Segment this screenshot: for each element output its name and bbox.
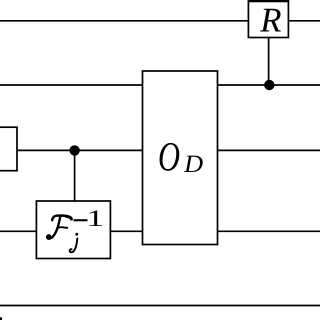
- wire q3: [0, 230, 320, 232]
- label j subscript: [70, 233, 79, 253]
- control wire q2 to F: [74, 150, 76, 202]
- label minus of superscript: [74, 219, 88, 221]
- gate R box top edge (clipped at image top): [248, 0, 290, 2]
- control dot on q2: [69, 145, 79, 155]
- wire q2: [0, 149, 320, 151]
- svg-text:1: 1: [86, 206, 104, 232]
- label mathcal F: [47, 216, 71, 239]
- svg-text:O: O: [158, 135, 180, 181]
- gate F_j^-1 box: [36, 201, 110, 259]
- control dot on q1: [264, 80, 274, 90]
- crop artifact bottom-left: [0, 317, 2, 320]
- gate O_D box: [143, 71, 218, 245]
- svg-text:D: D: [183, 151, 203, 178]
- wire q0: [0, 20, 320, 22]
- wire q4: [0, 305, 320, 307]
- control wire R to q1: [268, 36, 270, 85]
- gate R box: [248, 1, 288, 37]
- svg-text:R: R: [259, 0, 281, 39]
- gate box (clipped, left edge): [0, 127, 17, 171]
- wire q1: [0, 84, 320, 86]
